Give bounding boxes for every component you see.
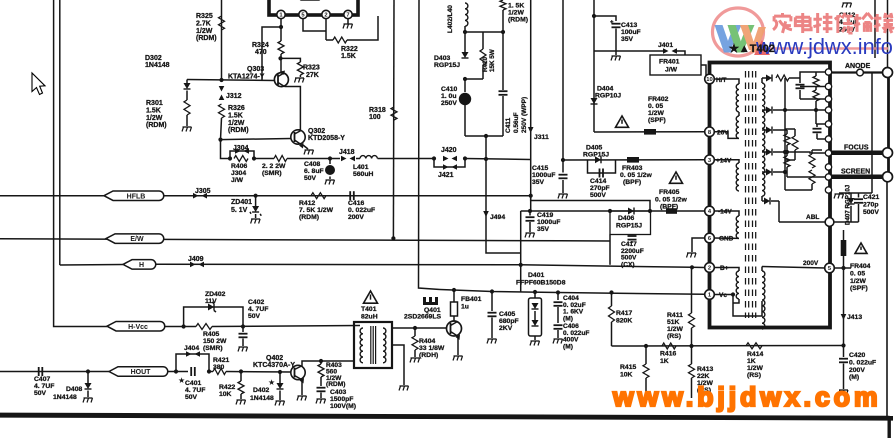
wire R322 up [347, 16, 378, 40]
wire x887 vertical [887, 0, 889, 68]
svg-text:H-Vcc: H-Vcc [128, 324, 148, 331]
jumper J413 [841, 314, 847, 320]
ground under R422 [236, 394, 246, 405]
resistor R318 [391, 107, 397, 120]
wire R421 to base [226, 371, 291, 374]
svg-text:380: 380 [213, 364, 225, 371]
svg-text:J413: J413 [847, 314, 862, 321]
node HFLB [104, 191, 164, 201]
svg-text:1/2W: 1/2W [648, 110, 664, 117]
ground under ZD401 [251, 214, 261, 224]
wire right rail low [886, 182, 888, 416]
label Q302 [308, 128, 345, 142]
svg-text:35V: 35V [532, 179, 545, 186]
label C420 [849, 352, 876, 381]
label R404 [419, 338, 445, 359]
wire 26V row [594, 131, 704, 133]
T402 primary coil 2 [736, 112, 739, 138]
label J304 [233, 145, 249, 152]
wire +14V row [563, 159, 704, 161]
node R403 top [319, 359, 323, 363]
wire Q302 base row [221, 139, 291, 140]
svg-text:RGP10J: RGP10J [595, 93, 621, 100]
label J312 [226, 93, 242, 100]
svg-text:R412: R412 [299, 200, 315, 207]
node HOUT [109, 367, 168, 377]
connector circle r1 [825, 83, 831, 89]
svg-text:★▲T402: ★▲T402 [729, 43, 775, 55]
resistor R301 [184, 91, 190, 116]
fusible resistor FR401 box [650, 55, 701, 75]
svg-text:L401: L401 [353, 164, 369, 171]
svg-text:KTA1274-Y: KTA1274-Y [228, 74, 265, 81]
label B+ [720, 265, 729, 272]
wire J304 drop [221, 140, 231, 159]
wire GND pin stub [692, 238, 705, 252]
jumper J312 [219, 86, 225, 100]
node C401 left [174, 369, 178, 373]
svg-text:1.5K: 1.5K [341, 53, 356, 60]
label +14V [716, 158, 732, 165]
star C401 [178, 376, 185, 385]
ferrite bead FB401 [451, 292, 458, 321]
label ZD402 [205, 291, 226, 305]
wire R417 drop [609, 290, 613, 306]
wire 200V ext [834, 267, 851, 269]
svg-text:1.5K: 1.5K [146, 107, 161, 114]
svg-text:R415: R415 [620, 364, 636, 371]
svg-text:(CX): (CX) [621, 261, 635, 268]
label R415 [620, 364, 636, 378]
svg-text:C420: C420 [849, 352, 865, 359]
capacitor C411 [499, 32, 508, 136]
wire to x486 [465, 159, 530, 160]
node D406 left [608, 209, 612, 213]
jumper ZD402 loop [184, 307, 243, 327]
node D408 top [86, 369, 90, 373]
svg-text:R421: R421 [213, 357, 229, 364]
label D405 [586, 145, 602, 152]
diode D406a [628, 208, 634, 215]
wire B+ tap [714, 268, 740, 272]
capacitor C412 label [839, 12, 859, 33]
label Vc [719, 292, 727, 299]
wire Q303 base row [187, 80, 275, 81]
label GND [719, 236, 734, 243]
svg-text:ZD402: ZD402 [205, 291, 226, 298]
wire H-Vcc row [54, 325, 107, 327]
label C406 [563, 323, 589, 350]
svg-text:C416: C416 [348, 200, 364, 207]
svg-text:C401: C401 [185, 380, 201, 387]
capacitor fsd2 [813, 124, 826, 139]
capacitor C401 [191, 367, 195, 376]
label R421 [213, 357, 229, 371]
connector circle r9 [825, 187, 831, 193]
svg-text:4. 7UF: 4. 7UF [185, 387, 205, 394]
label R326 [228, 105, 249, 134]
wire L402 to node [464, 26, 466, 32]
node C419 top [528, 209, 532, 213]
resistor fsd4 [784, 152, 790, 177]
svg-text:(SPF): (SPF) [850, 285, 868, 292]
svg-text:R301: R301 [146, 100, 163, 107]
svg-text:R411: R411 [667, 312, 683, 319]
svg-text:FR403: FR403 [622, 165, 643, 172]
svg-text:(SPF): (SPF) [648, 117, 666, 124]
svg-text:R323: R323 [303, 65, 320, 72]
svg-text:1N4148: 1N4148 [53, 394, 77, 401]
pin 3 +14V [705, 155, 715, 165]
diode sec4 [762, 149, 787, 156]
resistor R406 [234, 156, 248, 162]
node FB401 top [452, 288, 456, 292]
wire x521 vertical [520, 211, 522, 292]
resistor R322 [326, 37, 347, 43]
node D406 right [648, 209, 652, 213]
label J413 [847, 314, 862, 321]
svg-text:(SMR): (SMR) [262, 170, 282, 177]
node Q303 emitter net [278, 56, 282, 60]
ground under pin 4 [343, 19, 353, 29]
label R323 [303, 65, 320, 80]
node C408 top [328, 156, 332, 160]
svg-text:1/2W: 1/2W [508, 10, 524, 17]
svg-text:(RDH): (RDH) [419, 352, 438, 359]
zener ZD402 [208, 302, 216, 312]
svg-text:0. 05 1/2w: 0. 05 1/2w [655, 197, 687, 204]
jumper J404 loop [176, 351, 209, 371]
label C402 [248, 299, 268, 320]
diode sec5 [762, 196, 779, 222]
svg-text:J312: J312 [226, 93, 242, 100]
svg-text:HFLB: HFLB [127, 193, 146, 200]
capacitor fsd [796, 78, 817, 99]
svg-text:C403: C403 [330, 389, 346, 396]
wire x843 down [843, 268, 845, 346]
resistor R325 [219, 16, 225, 30]
svg-text:1N4148: 1N4148 [250, 395, 274, 402]
resistor fsd5 [785, 129, 798, 160]
label 26V [717, 130, 729, 137]
inductor L402/L403 [447, 3, 468, 33]
svg-text:2SD2669LS: 2SD2669LS [404, 314, 441, 321]
label R318 [369, 107, 386, 121]
capacitor C415 [559, 160, 568, 193]
transistor Q302 [291, 130, 305, 149]
resistor fsd6 [809, 150, 815, 168]
star D402 [268, 378, 275, 387]
label FR405b [660, 204, 678, 211]
capacitor C416 [350, 191, 354, 200]
svg-text:0.56uF: 0.56uF [513, 112, 520, 133]
label C414 [590, 178, 610, 199]
connector circle r2 [825, 96, 831, 102]
resistor R412 [311, 193, 326, 199]
ground under D408 [83, 391, 93, 403]
ground GND pin [687, 253, 697, 258]
svg-text:200V: 200V [803, 260, 819, 267]
wire 26V tap [714, 132, 740, 139]
capacitor C403 [317, 388, 326, 398]
svg-text:Vc: Vc [719, 292, 727, 299]
node C420 top [841, 343, 845, 347]
label C415 [532, 165, 555, 186]
svg-text:1.5K: 1.5K [228, 112, 243, 119]
svg-text:33 1/8W: 33 1/8W [419, 345, 445, 352]
diode sec3 [762, 127, 787, 134]
label 200V [803, 260, 819, 267]
capacitor C407 [39, 367, 43, 376]
connector circle r6 [825, 150, 831, 156]
svg-text:R422: R422 [219, 384, 235, 391]
node +14V left [561, 158, 565, 162]
svg-text:100uF: 100uF [621, 29, 641, 36]
diode D402 [277, 372, 284, 389]
wire x563 vertical [562, 0, 564, 160]
svg-text:D402: D402 [253, 387, 269, 394]
svg-text:J305: J305 [195, 188, 211, 195]
label FR405 [655, 189, 687, 204]
resistor FR404 [841, 240, 847, 256]
wire pin3 to R322 [325, 19, 327, 40]
diode D408 [85, 372, 92, 390]
svg-text:H: H [139, 262, 144, 269]
resistor R324 [278, 41, 284, 54]
svg-text:(RDM): (RDM) [146, 122, 167, 129]
svg-text:J/W: J/W [665, 67, 678, 74]
wire fsd ties2 [785, 150, 789, 154]
svg-text:2: 2 [708, 266, 711, 272]
resistor R410 [480, 32, 486, 79]
wire L401 to J420 node [378, 158, 435, 160]
diode sec1 [766, 75, 772, 82]
pin 3 of U301 [322, 10, 330, 18]
svg-text:10K: 10K [620, 371, 633, 378]
label R325 [196, 13, 217, 42]
svg-text:C414: C414 [590, 178, 606, 185]
zener ZD401 [250, 196, 261, 216]
wire pin2 stub [303, 19, 326, 31]
label D404 [597, 86, 613, 93]
svg-text:500V: 500V [590, 192, 606, 199]
wire H row long [156, 264, 692, 267]
node C413 corner [592, 14, 596, 18]
ground under C420 [839, 390, 849, 395]
resistor FR402 [644, 129, 656, 135]
svg-text:1/2W: 1/2W [747, 365, 763, 372]
wire HVcc row c [212, 326, 360, 327]
diode D405 [595, 156, 601, 163]
connector anode big [883, 68, 893, 78]
wire FR401 to pin10 [701, 65, 706, 79]
svg-text:R416: R416 [660, 351, 676, 358]
label SCREEN [841, 169, 870, 176]
svg-text:J404: J404 [184, 345, 199, 352]
svg-text:(RDM): (RDM) [196, 35, 217, 42]
wire vertical x419 [419, 0, 441, 290]
label ABL [806, 214, 819, 221]
wire fsd tie3 [812, 149, 822, 151]
label C417 [621, 241, 644, 268]
wire emitter net [281, 58, 301, 72]
label R324 [252, 42, 269, 56]
transistor Q303 [274, 71, 288, 87]
node J304 left [228, 156, 232, 160]
node R404 top [413, 326, 417, 330]
node C405 top [490, 289, 494, 293]
heatsink Q401 [423, 297, 438, 305]
label FOCUS [844, 145, 869, 152]
label C407 [34, 376, 54, 397]
svg-text:C411: C411 [505, 117, 512, 133]
ground T401 right [399, 386, 409, 391]
capacitor C420 [839, 346, 848, 390]
svg-text:50V: 50V [185, 394, 198, 401]
wire left vertical rail A [53, 0, 55, 325]
label FB401 [461, 296, 482, 311]
label D302 [145, 55, 170, 69]
svg-text:ZD401: ZD401 [231, 199, 252, 206]
wire GND tap [714, 237, 740, 239]
svg-text:(RS): (RS) [747, 372, 761, 379]
capacitor C419 [526, 211, 535, 232]
label R406 [231, 163, 247, 184]
wire +14V tap [714, 160, 740, 163]
connector circle r7 [825, 164, 831, 170]
connector focus big [883, 148, 893, 158]
capacitor C405 [488, 292, 497, 339]
ground C412 [842, 3, 852, 8]
label T401 [361, 306, 378, 320]
ground under R404 [410, 350, 420, 363]
svg-text:(RDM): (RDM) [508, 17, 528, 24]
connector circle r5 [825, 136, 831, 142]
wire SCREEN bar [832, 175, 884, 180]
wire L-link HFLB-x650 [531, 196, 650, 211]
resistor R326 [219, 104, 225, 140]
svg-text:2: 2 [324, 13, 327, 19]
svg-text:D401: D401 [528, 272, 544, 279]
warning triangle FR404 [855, 243, 867, 253]
capacitor C414 [600, 169, 604, 178]
label FR401 [659, 59, 680, 74]
svg-text:0. 022uF: 0. 022uF [849, 359, 876, 366]
svg-text:270p: 270p [863, 202, 879, 209]
wire H row corner [60, 264, 123, 267]
svg-text:+14V: +14V [716, 158, 732, 165]
label R405 [203, 331, 227, 352]
transistor Q401 [447, 321, 462, 340]
label C416 [348, 200, 375, 221]
pin 2 of U301 [299, 10, 307, 18]
T401 right winding [383, 328, 386, 363]
wire -14V tap [714, 211, 740, 216]
resistor R417 [609, 306, 615, 346]
svg-text:ANODE: ANODE [845, 63, 871, 70]
svg-text:R417: R417 [616, 310, 632, 317]
svg-text:R414: R414 [747, 351, 763, 358]
svg-text:+: + [610, 20, 614, 26]
wire Q401 base row [392, 327, 447, 329]
label L401 [353, 164, 373, 178]
label J305 [195, 188, 211, 195]
label FR403 [620, 165, 652, 186]
label J420 [441, 147, 457, 154]
wire Q402 collector [302, 361, 354, 367]
watermark bjjdwx url [612, 382, 882, 412]
node H-Vcc [107, 321, 165, 331]
ground D407 tie [834, 194, 844, 199]
svg-text:1u: 1u [461, 304, 469, 311]
jumper C414 loop [588, 160, 616, 173]
svg-text:C413: C413 [621, 22, 637, 29]
diode D302 [184, 80, 191, 90]
transformer T401 box [354, 322, 392, 368]
svg-text:10K: 10K [219, 391, 232, 398]
wire right rail mid [887, 158, 890, 172]
label R416 [660, 351, 676, 365]
node R413 top [689, 344, 693, 348]
svg-text:270pF: 270pF [590, 185, 610, 192]
resistor R414 [746, 343, 762, 349]
connector circle r4 [825, 121, 831, 127]
diode sec4b [762, 169, 787, 176]
svg-text:7. 5K 1/2W: 7. 5K 1/2W [299, 207, 334, 214]
svg-text:C407: C407 [34, 376, 50, 383]
svg-text:FR404: FR404 [850, 263, 871, 270]
svg-text:H/T: H/T [716, 77, 727, 84]
pin 10 H/T [705, 74, 715, 84]
node D401 top [533, 290, 537, 294]
capacitor C408 electrolytic [325, 159, 335, 176]
wire pin10 to coil [714, 79, 740, 84]
wire ABL ext row [834, 221, 859, 223]
node Q303 base junction [219, 78, 223, 82]
capacitor C417 [628, 236, 637, 243]
svg-text:1. 5K: 1. 5K [508, 3, 524, 10]
wire R324 to Q303 node [280, 54, 282, 58]
svg-text:L402/L40: L402/L40 [447, 5, 454, 33]
label FR402 [648, 96, 669, 124]
wire D407 tie [839, 192, 872, 194]
svg-text:27K: 27K [306, 72, 319, 79]
svg-text:www.bjjdwx.com: www.bjjdwx.com [612, 382, 882, 412]
capacitor C413 [610, 20, 621, 55]
resistor fsd2 [813, 87, 819, 110]
capacitor C421 [854, 193, 863, 222]
label J409 [188, 256, 204, 263]
svg-text:J/W: J/W [231, 177, 244, 184]
svg-text:1500pF: 1500pF [330, 396, 353, 403]
svg-text:J304: J304 [231, 170, 246, 177]
wire ANODE row [832, 71, 884, 73]
wire HVcc row b [164, 326, 196, 328]
resistor R408 [274, 156, 287, 162]
svg-text:D404: D404 [597, 86, 613, 93]
svg-text:2KV: 2KV [499, 325, 513, 332]
label R408 [262, 163, 286, 177]
wire E/W row [0, 239, 610, 241]
svg-text:(RS): (RS) [667, 333, 681, 340]
svg-text:J401: J401 [658, 42, 673, 49]
mouse cursor [32, 73, 45, 95]
svg-text:22K: 22K [697, 373, 710, 380]
wire right rail top [887, 78, 890, 149]
svg-text:J494: J494 [490, 214, 505, 221]
T402 primary coil 3 [736, 163, 739, 191]
svg-text:15K 5W: 15K 5W [489, 49, 496, 72]
